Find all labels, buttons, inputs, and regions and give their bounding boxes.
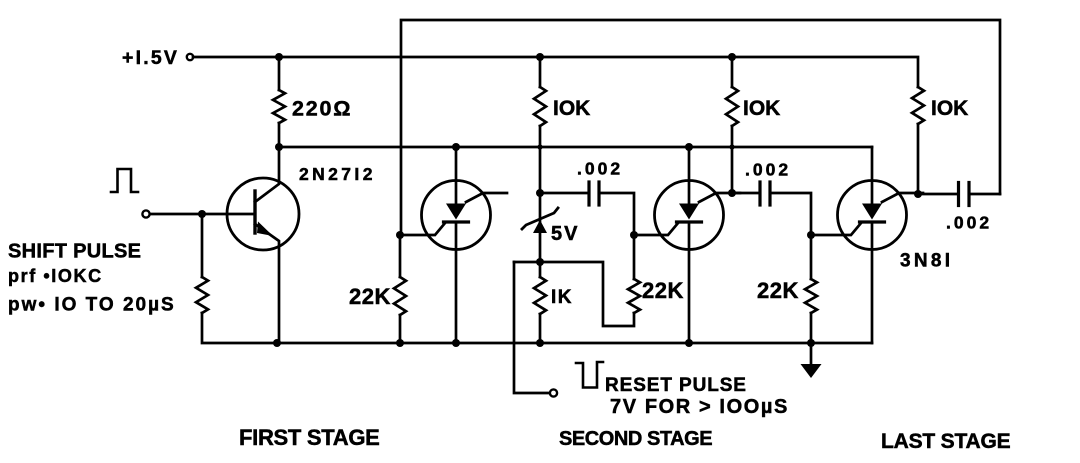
svg-text:IK: IK <box>551 287 573 308</box>
svg-text:IOK: IOK <box>743 97 780 120</box>
svg-text:5V: 5V <box>551 223 579 245</box>
svg-text:IOK: IOK <box>553 97 590 120</box>
svg-text:220Ω: 220Ω <box>292 97 352 121</box>
svg-text:7V FOR > IOOµS: 7V FOR > IOOµS <box>610 396 789 418</box>
svg-text:SHIFT PULSE: SHIFT PULSE <box>8 241 141 263</box>
svg-text:.002: .002 <box>577 159 623 179</box>
svg-text:FIRST STAGE: FIRST STAGE <box>239 425 380 450</box>
svg-text:+I.5V: +I.5V <box>122 47 179 69</box>
svg-text:pw• IO TO 20µS: pw• IO TO 20µS <box>8 295 176 316</box>
svg-text:prf •IOKC: prf •IOKC <box>8 266 103 286</box>
svg-text:.002: .002 <box>745 160 791 180</box>
svg-text:2N27I2: 2N27I2 <box>299 164 376 184</box>
svg-text:3N8I: 3N8I <box>900 251 953 272</box>
svg-text:22K: 22K <box>757 278 799 303</box>
svg-text:22K: 22K <box>349 284 391 309</box>
svg-text:.002: .002 <box>946 213 992 233</box>
svg-text:LAST STAGE: LAST STAGE <box>881 430 1011 453</box>
svg-text:RESET PULSE: RESET PULSE <box>605 375 747 396</box>
svg-text:22K: 22K <box>642 278 684 303</box>
svg-text:SECOND STAGE: SECOND STAGE <box>559 428 712 450</box>
svg-text:IOK: IOK <box>931 97 968 120</box>
